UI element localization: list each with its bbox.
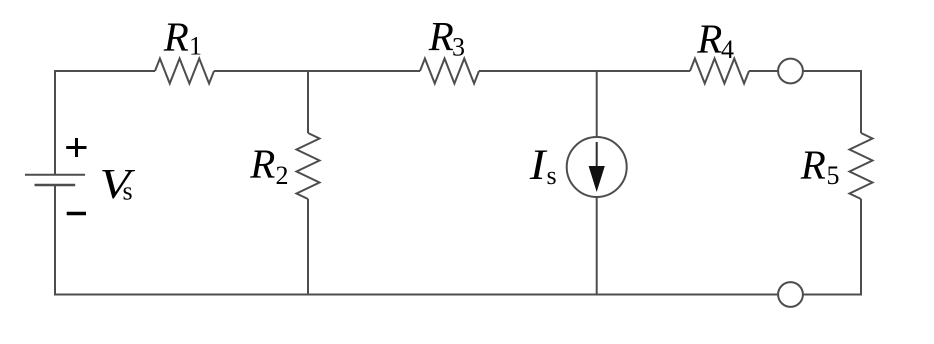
svg-text:I: I [529, 141, 548, 189]
svg-text:1: 1 [189, 32, 202, 61]
resistor R3 [420, 59, 479, 84]
current source Is: arrow (shaft + solid head pointing down) [589, 142, 605, 192]
svg-text:R: R [800, 141, 826, 187]
wire: left rail upper (top-left corner down to battery top plate) [54, 70, 56, 175]
svg-text:3: 3 [452, 33, 465, 62]
wire: right rail lower (R5 down to bottom-right corner) [860, 199, 862, 296]
wire: bottom segment from right rail to bottom terminal [803, 294, 861, 296]
battery Vs top plate (long, positive) [25, 174, 85, 176]
wire: top segment from R1 to R3 (through R2 junction) [214, 70, 420, 72]
svg-text:R: R [696, 15, 722, 61]
wire: top segment from top terminal to right rail [803, 70, 861, 72]
svg-text:R: R [428, 13, 454, 59]
svg-text:2: 2 [276, 161, 289, 190]
terminal: bottom open-circle terminal [778, 282, 803, 307]
resistor R4 [690, 59, 749, 84]
wire: left rail lower (battery bottom plate down to bottom-left corner) [54, 185, 56, 295]
wire: Is branch upper (top node down to current source) [596, 71, 598, 137]
current source Is: circle [567, 137, 627, 197]
battery Vs bottom plate (short, negative) [35, 184, 76, 187]
polarity mark: minus sign below battery [67, 212, 86, 215]
wire: R2 branch upper (top node down to R2) [307, 71, 309, 133]
resistor R2 [297, 133, 320, 199]
wire: Is branch lower (current source down to bottom wire) [596, 197, 598, 295]
svg-text:4: 4 [721, 35, 734, 64]
resistor R1 [155, 59, 214, 84]
wire: right rail upper (down to R5) [860, 70, 862, 133]
wire: bottom segment from bottom terminal to bottom-left corner [54, 294, 778, 296]
terminal: top open-circle terminal [778, 59, 803, 84]
wire: top segment from left corner to R1 [54, 70, 155, 72]
svg-text:s: s [123, 177, 133, 206]
svg-text:R: R [249, 140, 275, 186]
svg-text:R: R [163, 14, 189, 60]
wire: top segment from R4 to top terminal [749, 70, 778, 72]
polarity mark: plus sign above battery [66, 138, 86, 157]
svg-text:s: s [547, 161, 557, 190]
resistor R5 [850, 133, 873, 199]
svg-text:5: 5 [827, 161, 840, 190]
wire: top segment from R3 to R4 (through Is junction) [479, 70, 690, 72]
wire: R2 branch lower (R2 down to bottom wire) [307, 199, 309, 295]
